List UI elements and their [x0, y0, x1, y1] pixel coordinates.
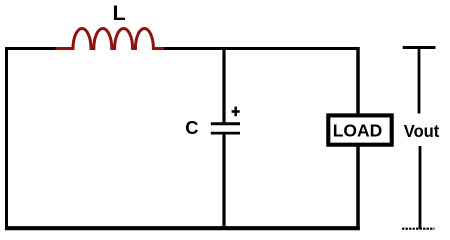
svg-text:Vout: Vout — [404, 121, 440, 141]
Vout bottom dashed tick — [402, 228, 435, 230]
wire right vertical — [356, 47, 360, 230]
wire left vertical — [5, 47, 8, 230]
svg-text:L: L — [113, 1, 126, 25]
wire capacitor branch lower — [222, 133, 225, 228]
load box — [328, 115, 391, 144]
capacitor polarity plus sign — [232, 107, 240, 117]
node/wire capacitor branch upper — [222, 49, 225, 124]
wire bottom — [5, 226, 360, 230]
svg-text:LOAD: LOAD — [333, 121, 383, 141]
svg-text:C: C — [185, 117, 198, 138]
Vout top tick — [403, 46, 436, 49]
capacitor C bottom plate — [211, 132, 240, 135]
wire top-left segment — [5, 47, 58, 50]
Vout measurement line lower — [419, 146, 422, 229]
Vout measurement line upper — [418, 46, 421, 114]
wire top-right segment — [162, 47, 360, 50]
inductor L coil — [56, 28, 165, 48]
capacitor C top plate — [211, 122, 240, 125]
